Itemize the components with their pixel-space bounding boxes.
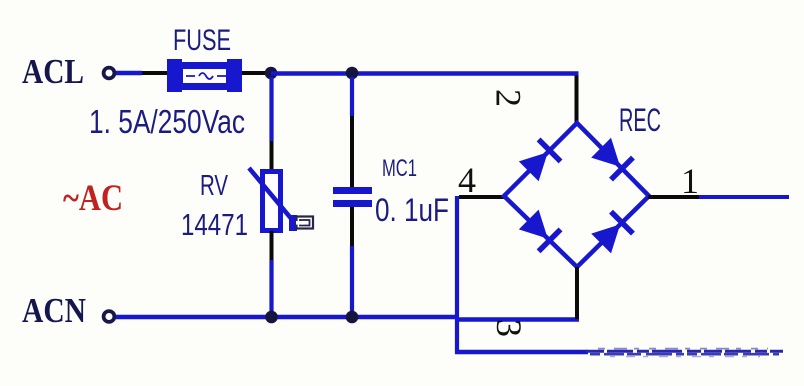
wire bottom watermark segment: [586, 349, 783, 357]
varistor RV tab symbol: [296, 217, 313, 229]
wire bridge pin 1 (black then blue): [648, 195, 699, 199]
bridge rectifier REC diamond: [504, 123, 649, 267]
wire corner down to bridge pin 2 (black): [575, 76, 579, 125]
wire capacitor to bottom junction (black then blue): [350, 207, 354, 246]
svg-text:0. 1uF: 0. 1uF: [375, 192, 449, 228]
svg-text:~AC: ~AC: [63, 178, 123, 219]
fuse F1: [167, 59, 242, 92]
svg-text:1. 5A/250Vac: 1. 5A/250Vac: [89, 103, 245, 140]
wire junction down to varistor (blue then black): [269, 77, 273, 141]
diode D2 top-right: [590, 137, 633, 180]
wire fuse to junction (black): [242, 71, 268, 75]
wire junction down to capacitor (blue then black): [350, 77, 354, 116]
wire negative rail bottom (blue): [455, 350, 588, 355]
diode D1 top-left: [518, 139, 561, 182]
wire bridge pin 3 stub (black): [575, 267, 579, 319]
wire bridge pin 4 (black): [459, 195, 505, 199]
diode D4 bottom-right: [590, 212, 633, 255]
svg-text:2: 2: [489, 89, 529, 107]
wire ACN to bridge pin 3 (blue): [456, 317, 579, 322]
junction dot top-left: [265, 67, 278, 80]
svg-text:FUSE: FUSE: [173, 24, 231, 57]
varistor RV diagonal stroke: [249, 168, 294, 222]
svg-text:ACL: ACL: [22, 52, 84, 91]
junction dot top-middle: [346, 67, 359, 80]
varistor RV body: [263, 172, 281, 231]
diode D3 bottom-left: [518, 209, 561, 252]
wire negative rail vertical (blue): [455, 196, 459, 354]
svg-text:3: 3: [489, 319, 529, 337]
svg-text:MC1: MC1: [382, 155, 417, 182]
varistor RV terminal blob: [289, 215, 297, 231]
svg-text:REC: REC: [619, 102, 661, 138]
junction dot bottom-left: [265, 311, 278, 324]
wire ACL terminal to fuse (blue then black): [116, 71, 142, 76]
svg-text:ACN: ACN: [22, 291, 86, 330]
capacitor MC1 plates: [333, 187, 372, 194]
wire ACN rail (blue): [116, 315, 459, 320]
wire top rail (blue) to bridge corner: [271, 71, 579, 76]
terminal ACL: [104, 68, 115, 79]
wire varistor to bottom junction (black then blue): [270, 231, 274, 260]
svg-text:4: 4: [458, 160, 476, 200]
svg-text:14471: 14471: [181, 207, 248, 242]
svg-text:RV: RV: [200, 170, 228, 202]
junction dot bottom-middle: [346, 311, 359, 324]
terminal ACN: [104, 311, 115, 322]
